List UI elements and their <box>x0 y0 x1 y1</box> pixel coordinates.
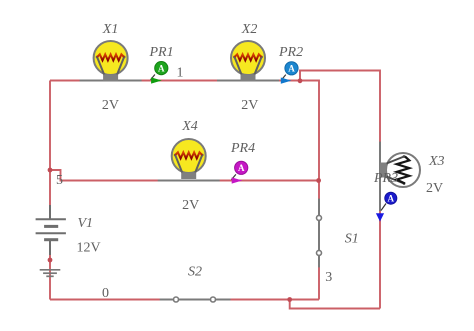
svg-text:X2: X2 <box>241 22 258 37</box>
wire battery bottom to bottom rail <box>49 255 51 300</box>
junction middle-S1 <box>316 178 321 183</box>
lead X1 <box>80 80 142 82</box>
switch S1 <box>317 199 322 268</box>
svg-text:S1: S1 <box>345 232 359 247</box>
svg-text:5: 5 <box>56 173 63 188</box>
svg-text:X3: X3 <box>428 154 445 169</box>
svg-text:2V: 2V <box>102 98 119 113</box>
wire node2 to S1 top <box>300 81 319 300</box>
junction node 5 <box>48 168 53 173</box>
svg-text:PR2: PR2 <box>278 45 303 60</box>
probe PR1 <box>151 62 168 84</box>
svg-text:A: A <box>288 64 295 74</box>
svg-text:3: 3 <box>325 270 332 285</box>
wire top horizontal <box>50 80 300 82</box>
svg-text:A: A <box>238 163 245 173</box>
wire bottom jog to X3 <box>290 300 380 309</box>
svg-text:12V: 12V <box>77 241 101 256</box>
wire node2 up to X3 branch <box>300 71 380 309</box>
svg-text:X1: X1 <box>102 22 119 37</box>
switch S2 <box>160 297 231 302</box>
probe PR3 <box>376 192 397 221</box>
svg-text:V1: V1 <box>78 216 94 231</box>
svg-text:X4: X4 <box>181 119 198 134</box>
lead X3 <box>379 142 381 211</box>
svg-text:PR4: PR4 <box>230 141 255 156</box>
svg-text:PR1: PR1 <box>149 45 174 60</box>
junction bottom <box>287 297 292 302</box>
lamp X4 <box>172 139 206 179</box>
junction node 2 <box>298 78 303 83</box>
lamp X3 <box>380 153 420 187</box>
svg-text:1: 1 <box>177 65 184 80</box>
wire middle branch <box>50 170 319 181</box>
wire left vertical <box>49 81 51 206</box>
svg-text:2V: 2V <box>426 181 443 196</box>
lead X4 <box>158 180 220 182</box>
svg-text:PR3: PR3 <box>373 171 398 186</box>
lamp X2 <box>231 41 265 81</box>
svg-text:A: A <box>388 193 395 203</box>
svg-text:0: 0 <box>102 286 109 301</box>
battery V1 <box>36 205 66 255</box>
svg-text:S2: S2 <box>188 264 202 279</box>
junction battery-ground <box>48 258 53 263</box>
wire bottom rail <box>50 299 319 301</box>
lead X2 <box>217 80 279 82</box>
svg-text:2V: 2V <box>241 98 258 113</box>
svg-text:A: A <box>158 63 165 73</box>
lamp X1 <box>94 41 128 81</box>
probe PR2 <box>281 62 298 84</box>
wire top loop <box>50 71 380 309</box>
svg-text:2V: 2V <box>182 198 199 213</box>
ground <box>40 270 61 277</box>
probe PR4 <box>231 161 247 183</box>
